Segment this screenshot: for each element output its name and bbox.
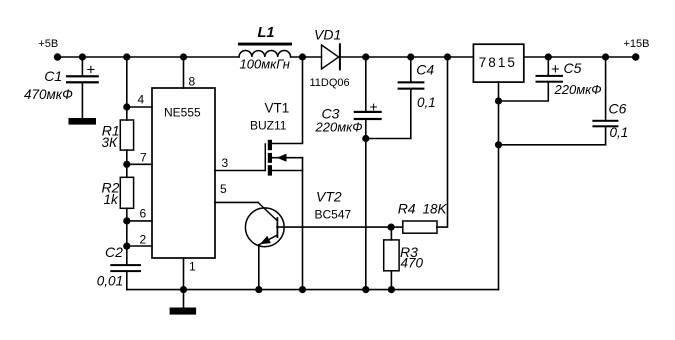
wire 7815 output to +15V terminal: [524, 56, 636, 58]
svg-text:100мкГн: 100мкГн: [240, 57, 290, 72]
wire bottom ground rail: [127, 289, 499, 291]
transistor VT2 BC547 (NPN): [245, 189, 351, 290]
wire R2 down to C2: [126, 208, 128, 264]
node dot R3/R4/base: [388, 224, 395, 231]
node junction dot C4 top: [407, 53, 414, 60]
svg-text:220мкФ: 220мкФ: [315, 119, 363, 134]
node junction dot pin8: [180, 53, 187, 60]
node +15V output terminal: [632, 53, 639, 60]
svg-text:C1: C1: [44, 68, 62, 84]
svg-text:220мкФ: 220мкФ: [554, 82, 602, 97]
svg-text:VT2: VT2: [316, 189, 342, 205]
svg-text:3: 3: [222, 156, 229, 170]
node dot R3 bottom: [388, 286, 395, 293]
svg-text:1k: 1k: [104, 192, 120, 207]
svg-text:5: 5: [220, 182, 227, 196]
wire pin 3 to VT1 gate: [215, 170, 265, 172]
wire 7815 ground pin down to bottom rail: [498, 82, 500, 290]
svg-text:VT1: VT1: [265, 100, 290, 115]
capacitor C5: [499, 57, 602, 101]
node junction dot C3 top: [362, 53, 369, 60]
svg-text:4: 4: [138, 93, 145, 107]
node dot pin1/ground: [180, 286, 187, 293]
svg-text:L1: L1: [258, 25, 275, 41]
node dot C3 bottom: [362, 286, 369, 293]
svg-text:6: 6: [140, 207, 147, 221]
svg-text:BUZ11: BUZ11: [250, 119, 287, 133]
node junction dot R1 chain top: [123, 53, 130, 60]
node dot C6 return: [495, 141, 502, 148]
node junction dot feedback top: [444, 53, 451, 60]
svg-text:C4: C4: [416, 62, 434, 78]
capacitor C3: [315, 57, 382, 290]
ground main: [170, 290, 197, 315]
capacitor C1: [24, 57, 99, 118]
svg-text:470: 470: [401, 256, 424, 271]
svg-text:+: +: [87, 61, 96, 78]
wire L1 to VD1: [291, 56, 322, 58]
svg-text:NE555: NE555: [164, 106, 201, 120]
resistor R1: [102, 120, 134, 150]
node dot VT1 source: [299, 286, 306, 293]
svg-text:18K: 18K: [423, 202, 448, 217]
capacitor C6: [499, 57, 629, 145]
node dot pin 7: [123, 161, 130, 168]
svg-text:+: +: [370, 98, 378, 114]
svg-text:3К: 3К: [102, 135, 119, 150]
svg-text:0,1: 0,1: [610, 125, 629, 140]
node dot VT2 emitter: [255, 286, 262, 293]
svg-text:470мкФ: 470мкФ: [24, 87, 73, 102]
resistor R2: [102, 177, 134, 208]
svg-text:7: 7: [140, 151, 147, 165]
node junction L1/VD1/VT1 drain: [299, 53, 306, 60]
ground C1: [69, 118, 97, 125]
svg-text:+15В: +15В: [624, 38, 650, 50]
IC U1 NE555: [152, 88, 215, 258]
transistor VT1 BUZ11 (MOSFET): [250, 57, 303, 290]
wire pin 1: [183, 258, 185, 290]
resistor R3: [384, 227, 424, 290]
diode VD1: [310, 27, 350, 89]
svg-text:11DQ06: 11DQ06: [310, 77, 350, 89]
capacitor C2: [97, 244, 141, 289]
wire pin 4 stub: [127, 106, 152, 108]
capacitor C4: [366, 57, 436, 139]
wire feedback from top rail down to R4: [437, 57, 448, 227]
wire R1 to R2: [126, 150, 128, 177]
node dot C5 return: [495, 97, 502, 104]
svg-text:BC547: BC547: [315, 208, 352, 222]
svg-text:C6: C6: [609, 101, 627, 117]
svg-text:+: +: [551, 61, 560, 78]
inductor L1: [238, 25, 292, 72]
svg-text:C5: C5: [564, 60, 582, 76]
node junction dot C6 top: [602, 53, 609, 60]
resistor R4: [391, 201, 447, 234]
node dot pin 6: [123, 217, 130, 224]
svg-text:R4: R4: [398, 201, 416, 217]
node junction dot C1 top: [79, 53, 86, 60]
node junction dot C5 top: [545, 53, 552, 60]
svg-text:2: 2: [140, 232, 147, 246]
svg-text:VD1: VD1: [314, 27, 341, 43]
wire VD1 to 7815 input: [341, 56, 474, 58]
node dot C3/C4 return: [362, 135, 369, 142]
wire VT2 base to R3/R4 node: [277, 226, 391, 228]
wire R chain vertical from rail to R1: [126, 57, 128, 120]
node dot pin 4: [123, 103, 130, 110]
wire pin 8: [183, 57, 185, 88]
node +5V input terminal: [54, 53, 61, 60]
wire pin 2 stub: [127, 245, 152, 247]
svg-text:7815: 7815: [479, 55, 517, 70]
svg-text:C2: C2: [105, 244, 123, 260]
wire pin 5 to VT2 collector: [215, 201, 258, 203]
svg-text:1: 1: [189, 260, 196, 274]
svg-text:+5В: +5В: [38, 38, 58, 50]
regulator U 7815: [473, 44, 523, 82]
svg-text:0,01: 0,01: [97, 274, 123, 289]
wire pin 7 stub: [127, 163, 152, 165]
svg-text:8: 8: [189, 75, 196, 89]
svg-text:0,1: 0,1: [417, 95, 436, 110]
node dot pin 2: [123, 243, 130, 250]
wire top rail from +5V terminal to L1: [58, 56, 240, 58]
wire pin 6 stub: [127, 220, 152, 222]
